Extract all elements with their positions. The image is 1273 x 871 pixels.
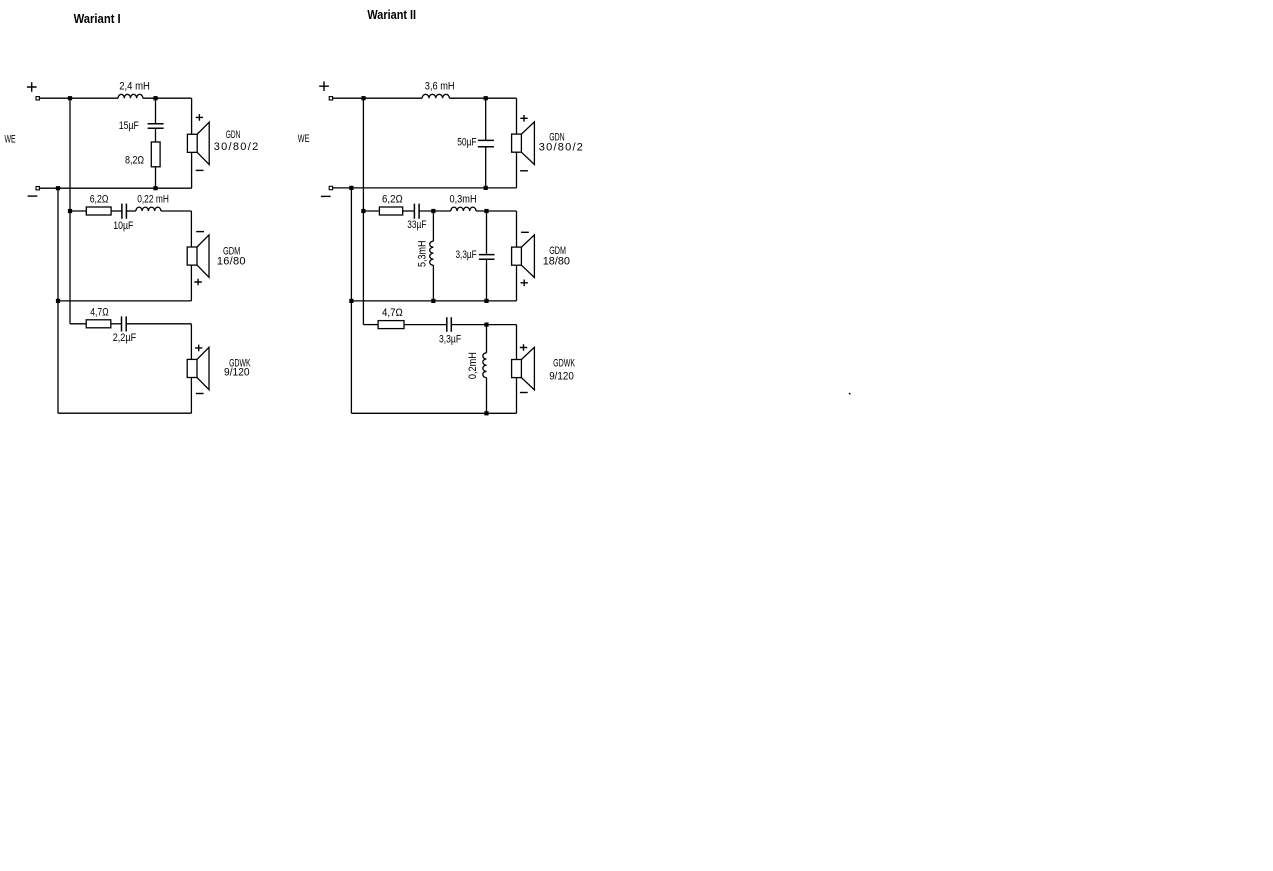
svg-text:10µF: 10µF <box>113 220 133 232</box>
wire tweeter return down <box>191 152 193 188</box>
minus mark tweeter I <box>196 169 204 171</box>
wire from L1 to tweeter corner <box>143 97 192 99</box>
wire L7 branch lower <box>486 378 488 414</box>
svg-text:9/120: 9/120 <box>224 367 250 379</box>
wire tweeter II feed down <box>516 98 518 134</box>
plus mark midrange II <box>521 280 528 287</box>
minus mark woofer I <box>196 393 204 395</box>
node G junction dot top rail II <box>361 96 365 100</box>
resistor R3 4,7ohm <box>86 320 111 328</box>
wire minus bus vertical x58 <box>57 188 59 413</box>
speaker GDN 30/80/2 driver rect <box>187 134 197 152</box>
minus mark input WE II <box>321 195 331 197</box>
node B junction dot after L1 <box>153 96 157 100</box>
svg-text:9/120: 9/120 <box>549 371 574 383</box>
capacitor C1 15uF <box>148 124 164 129</box>
svg-text:15µF: 15µF <box>119 120 139 132</box>
stray dot artifact <box>849 393 851 395</box>
wire plus bus vertical x70 <box>69 98 71 324</box>
speaker GDN 30/80/2 II cone <box>521 122 534 165</box>
svg-text:18/80: 18/80 <box>543 256 570 268</box>
node C junction dot bottom rail I <box>153 186 157 190</box>
svg-text:GDWK: GDWK <box>553 357 575 369</box>
speaker GDN 30/80/2 cone <box>197 122 209 164</box>
input terminal + (Wariant I) <box>36 97 39 100</box>
resistor R2 6,2ohm <box>86 207 111 215</box>
input terminal - (Wariant I) <box>36 187 39 190</box>
inductor L6 0,3mH <box>451 207 476 211</box>
resistor R5 4,7ohm <box>378 321 404 329</box>
wire from L4 to tweeter corner II <box>449 97 516 99</box>
plus mark tweeter I <box>196 114 203 121</box>
node Q junction dot L7 tap <box>484 323 488 327</box>
wire midrange feed down <box>190 211 192 247</box>
minus mark woofer II <box>520 392 528 394</box>
svg-text:0,3mH: 0,3mH <box>450 193 477 205</box>
svg-text:8,2Ω: 8,2Ω <box>125 154 144 166</box>
speaker GDM 18/80 driver rect <box>512 247 522 265</box>
wire C7 to woofer corner II <box>451 324 516 326</box>
node L junction dot L5 tap <box>431 209 435 213</box>
inductor L4 3,6mH <box>422 94 449 98</box>
wire woofer feed down <box>190 324 192 360</box>
wire bottom return I <box>58 412 191 414</box>
inductor L1 2,4mH <box>118 94 143 98</box>
wire woofer II feed down <box>516 325 518 360</box>
plus mark input WE II <box>319 81 329 91</box>
node F junction dot minus bus y301 <box>56 299 60 303</box>
speaker GDN 30/80/2 II driver rect <box>512 134 522 152</box>
wire top rail I from + terminal to inductor <box>39 97 118 99</box>
capacitor C7 3,3uF <box>447 317 452 332</box>
svg-text:3,3µF: 3,3µF <box>456 249 477 261</box>
input terminal + (Wariant II) <box>329 97 332 100</box>
plus mark tweeter II <box>520 115 527 122</box>
wire C2 to L2 <box>126 210 135 212</box>
node K junction dot midrange tap II <box>361 209 365 213</box>
speaker GDM 16/80 driver rect <box>187 247 197 265</box>
svg-text:16/80: 16/80 <box>217 255 246 267</box>
node E junction dot midrange tap <box>68 209 72 213</box>
svg-text:GDN: GDN <box>226 129 241 141</box>
inductor L2 0,22mH <box>136 207 161 211</box>
svg-text:3,6 mH: 3,6 mH <box>425 81 455 93</box>
wire midrange bottom rail II <box>351 300 516 302</box>
svg-text:4,7Ω: 4,7Ω <box>90 307 108 319</box>
svg-text:6,2Ω: 6,2Ω <box>90 193 109 205</box>
resistor R4 6,2ohm <box>379 207 402 215</box>
wire plus bus vertical x363 <box>362 98 364 324</box>
node N junction dot L5 bottom <box>431 299 435 303</box>
svg-text:2,4 mH: 2,4 mH <box>119 81 150 93</box>
svg-text:3,3µF: 3,3µF <box>439 333 461 345</box>
wire C6 branch upper <box>486 211 488 254</box>
svg-text:50µF: 50µF <box>457 137 477 149</box>
wire R4 to C5 <box>403 210 415 212</box>
inductor L7 0,2mH vertical <box>483 353 487 378</box>
input terminal - (Wariant II) <box>329 186 332 189</box>
wire midrange II feed down <box>516 211 518 247</box>
wire tweeter feed down <box>191 98 193 134</box>
wire midrange II return down <box>516 265 518 301</box>
svg-text:Wariant I: Wariant I <box>74 11 121 26</box>
wire L7 branch upper <box>486 325 488 353</box>
capacitor C4 50uF <box>478 140 494 146</box>
speaker GDWK 9/120 cone <box>197 347 209 389</box>
svg-text:6,2Ω: 6,2Ω <box>382 193 403 205</box>
plus mark woofer I <box>195 345 202 352</box>
wire C3 to woofer corner <box>126 323 191 325</box>
svg-text:WE: WE <box>298 133 310 145</box>
node I junction dot bottom rail II <box>484 186 488 190</box>
svg-text:0,22 mH: 0,22 mH <box>137 193 169 205</box>
minus mark tweeter II <box>520 170 528 172</box>
wire bottom rail I (minus) <box>39 187 191 189</box>
svg-text:5,3mH: 5,3mH <box>417 240 429 267</box>
wire C1 to R1 <box>155 129 157 142</box>
plus mark midrange I <box>194 279 201 286</box>
node O junction dot C6 bottom <box>484 299 488 303</box>
speaker GDM 16/80 cone <box>197 235 209 277</box>
minus mark midrange II <box>521 231 529 233</box>
wire midrange return down <box>190 265 192 301</box>
wire R2 to C2 <box>111 210 122 212</box>
wire L5 branch lower <box>432 265 434 301</box>
node R junction dot L7 bottom <box>484 411 488 415</box>
node A junction dot top rail I <box>68 96 72 100</box>
wire vertical branch to C4 <box>485 98 487 140</box>
capacitor C2 10uF <box>122 204 127 219</box>
wire midrange branch II to R4 <box>363 210 379 212</box>
speaker GDM 18/80 cone <box>521 235 534 278</box>
wire woofer branch corner II <box>363 324 378 326</box>
wire midrange bottom to minus bus <box>58 300 191 302</box>
wire C4 to bottom rail II <box>485 147 487 188</box>
wire L2 to midrange corner <box>161 210 192 212</box>
svg-text:2,2µF: 2,2µF <box>113 332 137 344</box>
wire C6 branch lower <box>486 260 488 301</box>
svg-text:4,7Ω: 4,7Ω <box>382 307 403 319</box>
svg-text:33µF: 33µF <box>407 219 426 231</box>
capacitor C5 33uF <box>414 204 419 219</box>
wire woofer II return down <box>516 378 518 414</box>
wire R5 to C7 <box>404 324 447 326</box>
svg-text:30/80/2: 30/80/2 <box>539 142 583 154</box>
wire midrange branch to R2 <box>70 210 86 212</box>
wire minus bus vertical x351 <box>350 188 352 413</box>
inductor L5 5,3mH vertical <box>430 241 434 265</box>
wire bottom return II <box>351 412 516 414</box>
wire R1 to bottom rail <box>155 167 157 188</box>
svg-text:0,2mH: 0,2mH <box>467 352 479 379</box>
node J junction dot minus rail start II <box>349 186 353 190</box>
wire L5 branch upper <box>432 211 434 241</box>
speaker GDWK 9/120 II driver rect <box>512 360 522 378</box>
node P junction dot minus bus II y301 <box>349 299 353 303</box>
plus mark input WE I <box>27 82 37 92</box>
minus mark input WE I <box>28 195 38 197</box>
wire top rail II from + terminal to inductor <box>333 97 423 99</box>
wire L6 to midrange corner II <box>476 210 517 212</box>
wire vertical branch to C1 <box>155 98 157 123</box>
node H junction dot C4 tap <box>484 96 488 100</box>
resistor R1 8,2ohm vertical <box>151 142 160 167</box>
svg-text:WE: WE <box>5 134 16 146</box>
wire C5 to node L <box>419 210 451 212</box>
capacitor C3 2,2uF <box>122 316 127 331</box>
node M junction dot C6 tap <box>484 209 488 213</box>
speaker GDWK 9/120 II cone <box>521 347 534 390</box>
wire woofer branch corner <box>70 323 86 325</box>
wire woofer return down <box>190 378 192 414</box>
svg-text:Wariant II: Wariant II <box>367 7 416 22</box>
speaker GDWK 9/120 driver rect <box>187 359 197 377</box>
plus mark woofer II <box>520 344 527 351</box>
svg-text:30/80/2: 30/80/2 <box>214 141 259 153</box>
minus mark midrange I <box>196 231 204 233</box>
wire tweeter II return down <box>516 152 518 188</box>
wire bottom rail II (minus) <box>333 187 517 189</box>
node D junction dot minus rail start <box>56 186 60 190</box>
capacitor C6 3,3uF <box>479 255 495 260</box>
wire R3 to C3 <box>111 323 122 325</box>
